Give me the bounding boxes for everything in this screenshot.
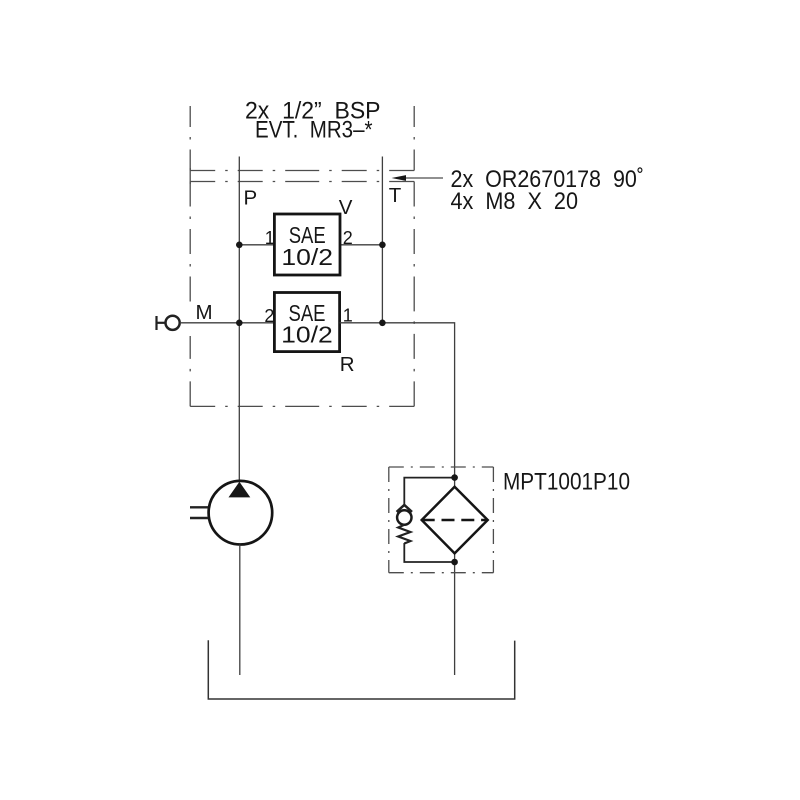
wire pump to tank xyxy=(239,545,241,676)
valve U1 SAE 10/2 (V cartridge) xyxy=(274,214,340,275)
wire pin row 1 right xyxy=(340,244,382,246)
wire P vertical xyxy=(238,157,240,482)
enclosure upper dash-dot box (port face region) xyxy=(190,106,414,184)
svg-text:2: 2 xyxy=(343,228,353,248)
junction dot filter top xyxy=(451,474,458,481)
junction dot P-pin1 xyxy=(236,242,243,249)
enclosure lower dash-dot box (manifold boundary) xyxy=(190,182,414,407)
filter F1 element dashed line xyxy=(422,519,488,522)
wire R horizontal to filter drop xyxy=(340,323,455,675)
svg-text:MPT1001P10: MPT1001P10 xyxy=(503,468,630,495)
wire M horizontal to valve U2 xyxy=(180,322,274,324)
tank T1 xyxy=(208,640,514,699)
filter F1 diamond xyxy=(422,487,488,554)
svg-text:P: P xyxy=(244,187,258,210)
svg-text:EVT. MR3–*: EVT. MR3–* xyxy=(255,117,373,144)
junction dot T-R xyxy=(379,320,386,327)
junction dot P-M xyxy=(236,320,243,327)
junction dot T-pin2 xyxy=(379,242,386,249)
svg-text:1: 1 xyxy=(265,228,275,248)
filter assembly dash-dot box xyxy=(389,467,494,573)
junction dot filter bottom xyxy=(451,559,458,566)
svg-text:T: T xyxy=(389,184,402,207)
check valve CV1 spring xyxy=(398,525,410,544)
leader arrow to o-ring interface xyxy=(392,175,444,181)
valve U2 SAE 10/2 (R cartridge) xyxy=(274,293,339,352)
svg-text:10/2: 10/2 xyxy=(281,244,333,270)
pump P1 flow triangle xyxy=(229,482,251,498)
check valve CV1 branch wires xyxy=(404,478,454,562)
pump P1 drive shaft xyxy=(190,507,208,518)
svg-text:R: R xyxy=(340,353,355,376)
wire T vertical xyxy=(381,157,383,323)
svg-text:2: 2 xyxy=(264,306,274,326)
pump P1 circle xyxy=(209,481,273,545)
svg-text:4x M8 X 20: 4x M8 X 20 xyxy=(451,188,579,215)
svg-text:M: M xyxy=(196,301,213,324)
port M symbol (gauge connection) xyxy=(157,316,180,330)
check valve CV1 seat xyxy=(397,505,412,512)
check valve CV1 ball xyxy=(397,510,411,524)
wire pin row 1 left xyxy=(239,244,274,246)
svg-text:10/2: 10/2 xyxy=(281,322,333,348)
